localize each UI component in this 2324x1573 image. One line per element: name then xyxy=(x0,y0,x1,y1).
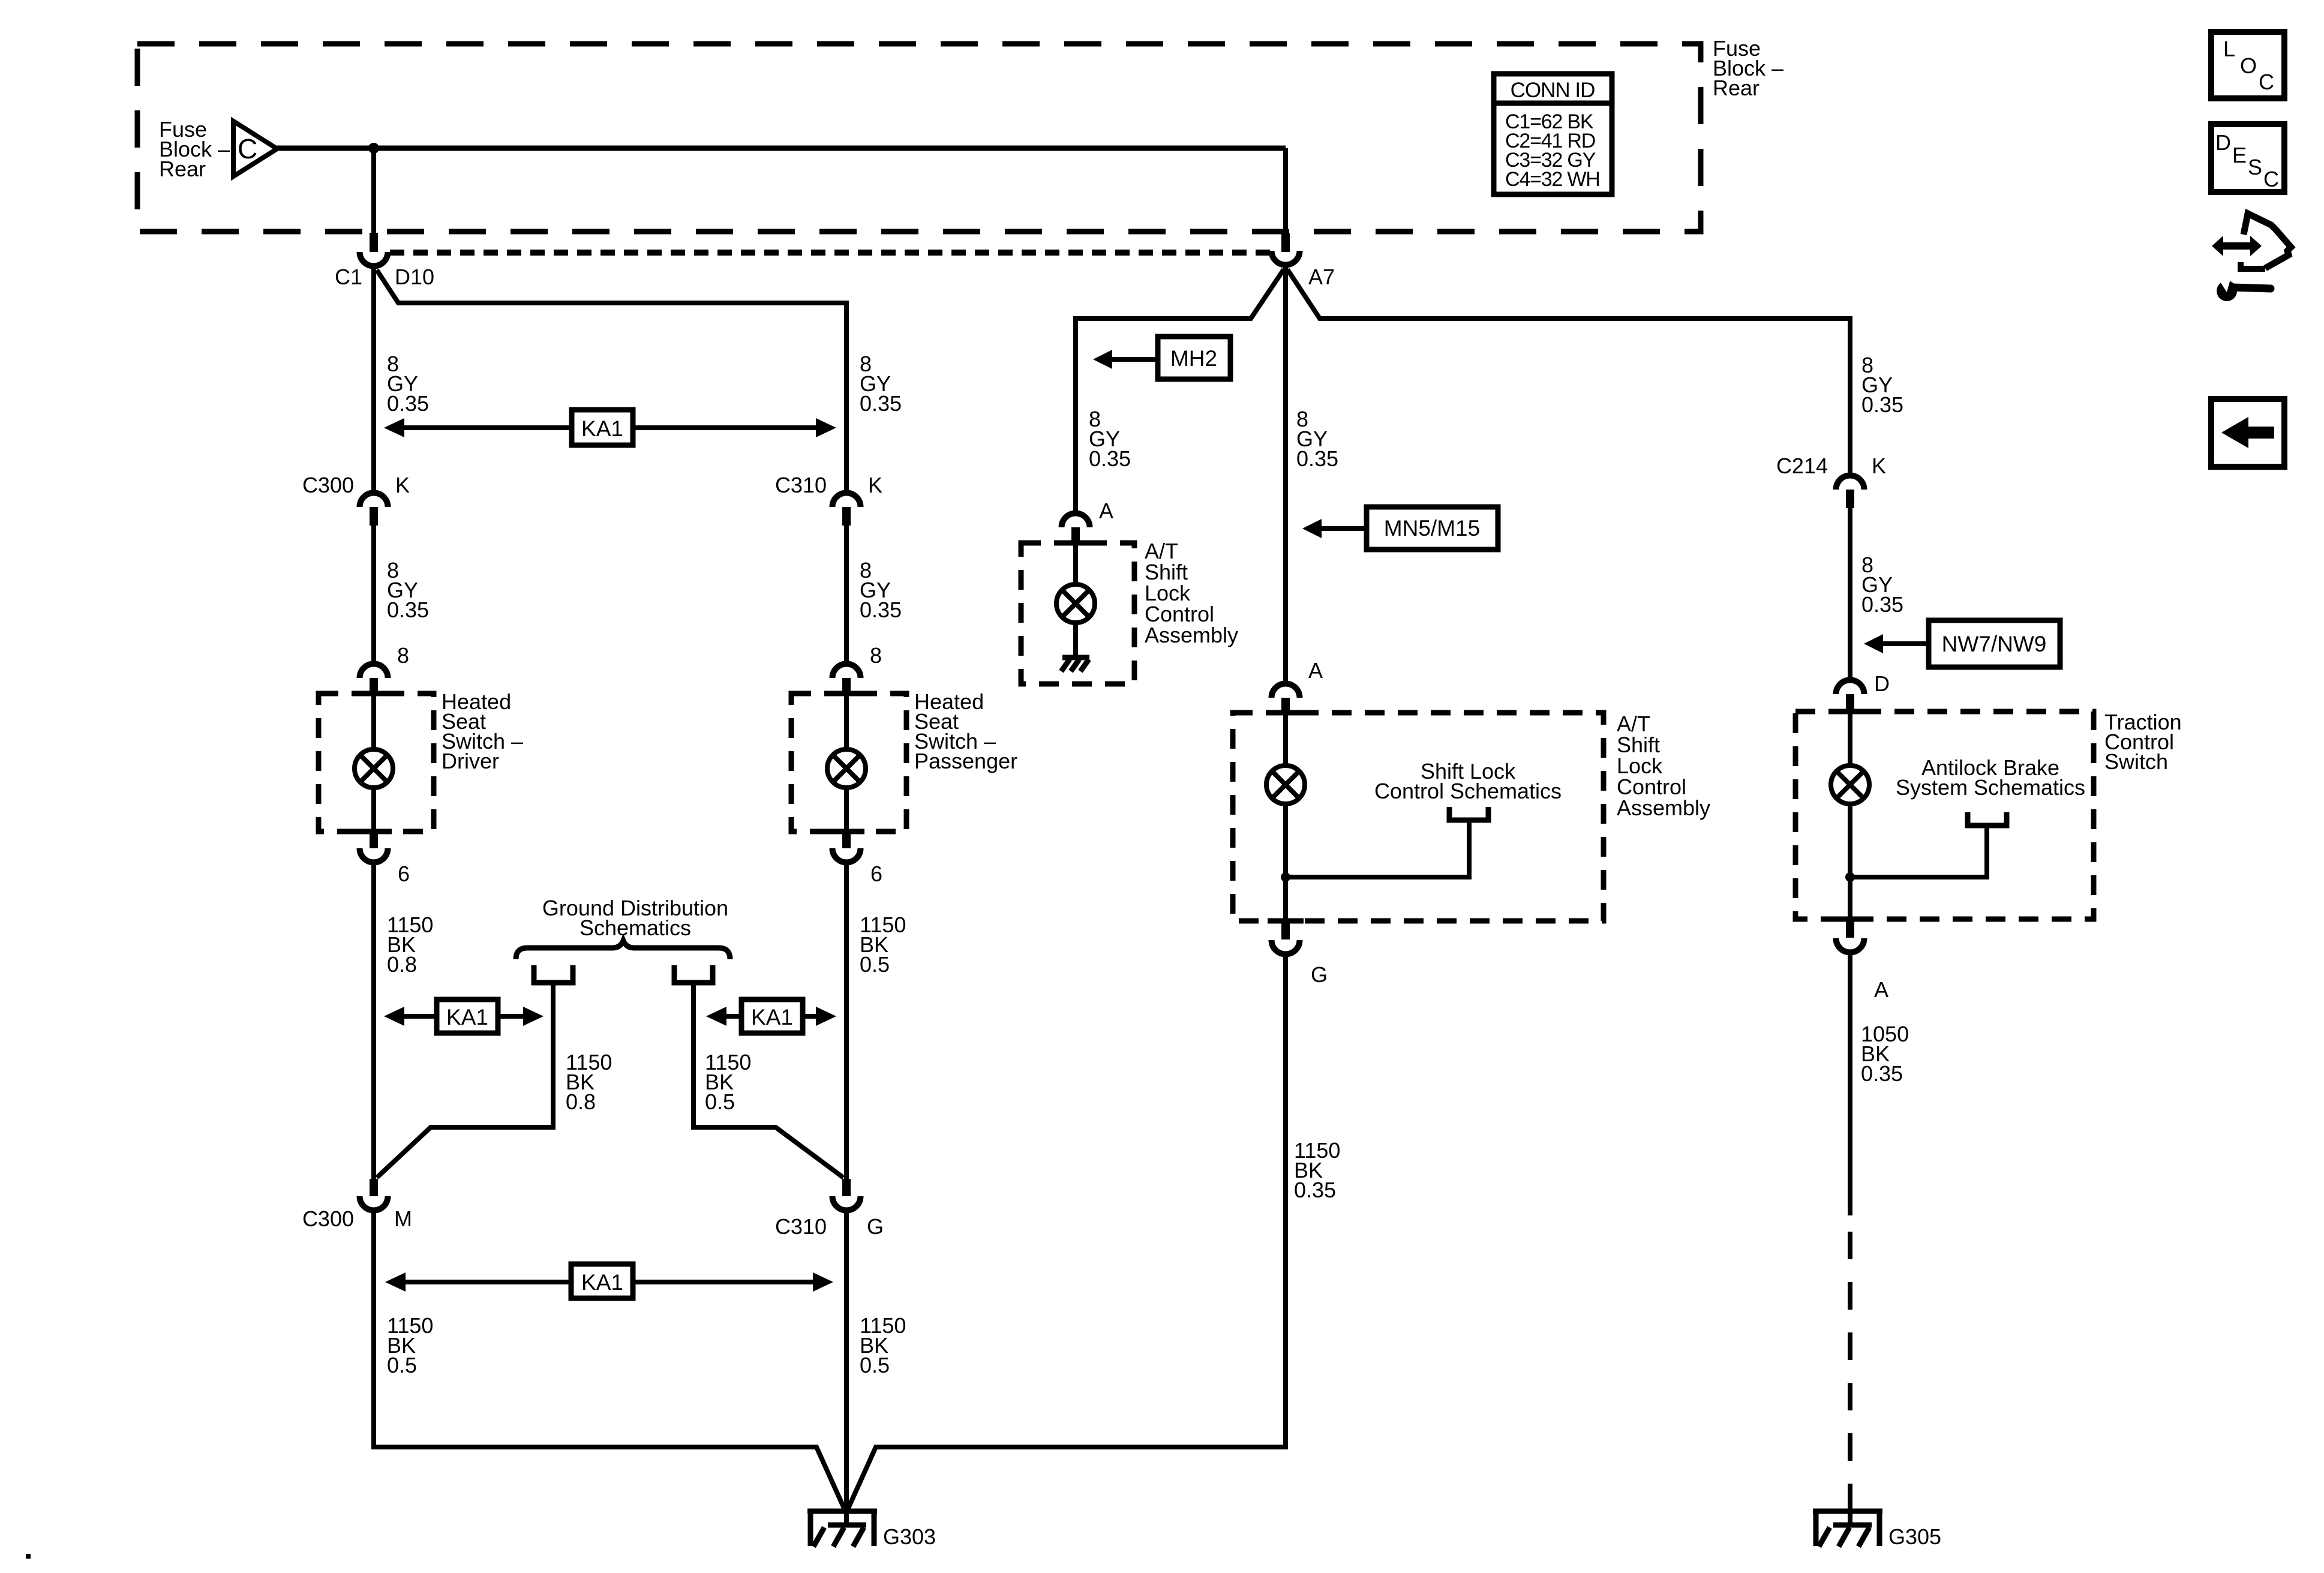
fuse block rear dashed outline xyxy=(137,44,1701,232)
wire: inside small assembly lower xyxy=(1073,621,1078,658)
fork: shift lock control schematics pointer xyxy=(1449,807,1488,820)
wire: junction to antilock fork xyxy=(1850,825,1987,877)
svg-text:0.8: 0.8 xyxy=(566,1089,596,1114)
svg-text:M: M xyxy=(394,1206,412,1231)
heated seat switch driver dashed box xyxy=(319,694,434,831)
label: A/T Shift Lock Control Assembly (small) xyxy=(1145,539,1238,647)
svg-text:A7: A7 xyxy=(1308,265,1335,289)
connector pin 6 (driver) xyxy=(360,831,410,886)
boundary tick driver bottom xyxy=(356,829,392,834)
svg-text:8: 8 xyxy=(397,643,409,668)
boundary tick traction top xyxy=(1832,709,1868,715)
svg-text:Passenger: Passenger xyxy=(914,749,1017,773)
svg-text:L: L xyxy=(2223,37,2235,61)
svg-text:O: O xyxy=(2240,53,2257,78)
heated seat switch passenger dashed box xyxy=(791,694,906,831)
svg-text:KA1: KA1 xyxy=(751,1005,793,1029)
svg-text:G305: G305 xyxy=(1888,1524,1941,1549)
boundary tick driver top xyxy=(356,691,392,697)
connector A (shift lock assembly small) xyxy=(1062,499,1114,544)
svg-text:MH2: MH2 xyxy=(1170,346,1217,371)
svg-text:K: K xyxy=(1872,454,1886,478)
wire label 1050 BK 0.35 xyxy=(1861,1022,1909,1086)
connector G (big shift lock assembly) xyxy=(1272,923,1328,987)
svg-text:Assembly: Assembly xyxy=(1145,623,1238,647)
wire: C1 down to C300 K xyxy=(371,266,376,491)
NW7/NW9 reference box and arrow xyxy=(1864,620,2060,667)
boundary tick traction bottom xyxy=(1832,917,1868,922)
ground G303 xyxy=(807,1509,936,1549)
label: Shift Lock Control Schematics xyxy=(1374,759,1562,803)
svg-text:S: S xyxy=(2248,155,2262,179)
wire label 1150 BK 0.5 (right tail) xyxy=(705,1050,751,1114)
svg-text:Rear: Rear xyxy=(1713,76,1759,100)
brace: ground distribution xyxy=(516,941,730,959)
svg-text:0.35: 0.35 xyxy=(860,598,902,622)
svg-text:0.5: 0.5 xyxy=(860,952,890,977)
wire label 8 GY 0.35 (MH2 branch) xyxy=(1089,407,1131,471)
lamp: driver heated seat indicator xyxy=(355,749,393,788)
fork: antilock brake schematics pointer xyxy=(1968,812,2007,825)
KA1 arrow mid left xyxy=(384,999,544,1033)
connector pin 8 (passenger switch) xyxy=(833,643,882,695)
svg-text:Driver: Driver xyxy=(442,749,499,773)
connector A (traction switch bottom) xyxy=(1836,921,1889,1002)
connector boundary dotted line C1/A7 xyxy=(390,250,1270,256)
svg-text:A: A xyxy=(1099,499,1113,523)
svg-text:D: D xyxy=(2215,130,2231,155)
svg-text:C214: C214 xyxy=(1776,454,1828,478)
connector C310 K xyxy=(775,473,882,526)
boundary tick passenger top xyxy=(828,691,864,697)
svg-text:0.35: 0.35 xyxy=(1861,592,1903,617)
svg-text:0.35: 0.35 xyxy=(1294,1178,1336,1202)
icon: DESC button xyxy=(2211,124,2284,192)
wire label 1150 BK 0.5 (passenger bottom) xyxy=(860,1313,906,1377)
wire: A7 right diagonal to traction branch xyxy=(1287,269,1850,474)
wire: right fork tail to C310 G xyxy=(693,983,843,1178)
label: Heated Seat Switch - Driver xyxy=(442,689,523,773)
svg-text:G303: G303 xyxy=(883,1524,936,1549)
lamp: passenger heated seat indicator xyxy=(827,749,866,788)
wire: inside small assembly upper xyxy=(1073,543,1078,586)
wire label 8 GY 0.35 (traction upper) xyxy=(1861,353,1903,417)
svg-text:D: D xyxy=(1874,671,1890,696)
wire: inside passenger switch upper xyxy=(844,694,849,751)
svg-text:K: K xyxy=(395,473,410,497)
svg-text:Control Schematics: Control Schematics xyxy=(1374,779,1562,803)
svg-text:C: C xyxy=(2259,70,2274,94)
svg-text:NW7/NW9: NW7/NW9 xyxy=(1942,632,2047,656)
svg-text:G: G xyxy=(867,1214,884,1239)
wire: C310 G to ground G303 xyxy=(844,1211,849,1526)
icon: back arrow button xyxy=(2211,399,2284,467)
svg-text:A: A xyxy=(1874,977,1888,1002)
stray mark bottom left xyxy=(26,1554,31,1559)
svg-text:8: 8 xyxy=(870,643,882,668)
CONN ID table xyxy=(1494,74,1612,194)
node: junction inside traction box xyxy=(1845,872,1855,882)
connector C300 M xyxy=(302,1179,412,1231)
svg-text:C310: C310 xyxy=(775,1214,827,1239)
wire: left fork tail to C300 M xyxy=(377,983,553,1178)
boundary tick passenger bottom xyxy=(828,829,864,834)
svg-text:CONN ID: CONN ID xyxy=(1511,79,1595,102)
svg-text:D10: D10 xyxy=(395,265,434,289)
connector A7 pin xyxy=(1272,233,1335,289)
svg-text:Assembly: Assembly xyxy=(1617,795,1710,820)
label: Heated Seat Switch - Passenger xyxy=(914,689,1017,773)
svg-text:C300: C300 xyxy=(302,1206,354,1231)
node: junction at C1 drop xyxy=(368,143,379,154)
svg-text:0.35: 0.35 xyxy=(387,391,429,416)
svg-text:0.5: 0.5 xyxy=(860,1353,890,1377)
wire label 1150 BK 0.8 (driver) xyxy=(387,912,433,977)
fuse output triangle C xyxy=(233,121,277,176)
MH2 reference box and arrow xyxy=(1093,337,1230,379)
fork: ground distribution left xyxy=(534,965,573,983)
wire label 1150 BK 0.5 (passenger) xyxy=(860,912,906,977)
svg-text:0.5: 0.5 xyxy=(705,1089,735,1114)
label: A/T Shift Lock Control Assembly (big box right) xyxy=(1617,712,1710,820)
boundary tick small box top xyxy=(1058,541,1094,546)
wire: junction to schematic fork xyxy=(1286,820,1469,877)
wire label 1150 BK 0.5 (driver bottom) xyxy=(387,1313,433,1377)
svg-text:0.8: 0.8 xyxy=(387,952,417,977)
svg-text:0.35: 0.35 xyxy=(1089,446,1131,471)
svg-text:Schematics: Schematics xyxy=(580,915,691,940)
fork: ground distribution right xyxy=(674,965,713,983)
wire: inside big box lower xyxy=(1283,802,1288,921)
traction control switch dashed box xyxy=(1795,712,2094,919)
wire: C310 K to switch (passenger) xyxy=(844,526,849,662)
wire: traction A down (solid) xyxy=(1848,953,1852,1215)
icon: LOC button xyxy=(2211,32,2284,98)
connector C310 G xyxy=(775,1179,884,1239)
connector D (traction switch) xyxy=(1836,671,1890,711)
wire: D10 diagonal branch xyxy=(377,270,846,491)
wire: inside traction box lower xyxy=(1848,802,1852,919)
svg-text:C4=32 WH: C4=32 WH xyxy=(1505,168,1600,191)
svg-text:C: C xyxy=(2263,167,2279,191)
connector pin 6 (passenger) xyxy=(833,831,883,886)
A/T shift lock control assembly small dashed box xyxy=(1021,543,1134,684)
label: Traction Control Switch xyxy=(2104,710,2182,774)
connector C214 K xyxy=(1776,454,1886,508)
wire: inside traction box upper xyxy=(1848,712,1852,767)
MN5/M15 reference box and arrow xyxy=(1302,507,1498,550)
label: Antilock Brake System Schematics xyxy=(1896,755,2085,800)
svg-text:K: K xyxy=(868,473,882,497)
svg-text:6: 6 xyxy=(870,861,882,886)
wire: main feed from triangle C xyxy=(277,146,1286,151)
wire: drop to C1 xyxy=(371,148,376,234)
svg-text:C: C xyxy=(238,133,257,164)
svg-text:E: E xyxy=(2232,143,2247,167)
svg-text:0.5: 0.5 xyxy=(387,1353,417,1377)
svg-text:C1: C1 xyxy=(335,265,362,289)
svg-text:0.35: 0.35 xyxy=(1861,1061,1903,1086)
svg-text:6: 6 xyxy=(398,861,410,886)
svg-text:0.35: 0.35 xyxy=(1861,392,1903,417)
wire label 1150 BK 0.8 (left tail) xyxy=(566,1050,612,1114)
svg-text:Switch: Switch xyxy=(2104,749,2168,774)
svg-text:KA1: KA1 xyxy=(581,1270,623,1295)
connector A (big shift lock assembly) xyxy=(1272,658,1323,715)
node: junction inside big box xyxy=(1281,872,1290,882)
svg-text:A: A xyxy=(1308,658,1323,683)
svg-text:G: G xyxy=(1311,962,1328,987)
wire label 8 GY 0.35 (A7 branch) xyxy=(1296,407,1338,471)
KA1 arrow mid right xyxy=(706,999,836,1033)
wire: inside driver switch lower xyxy=(371,786,376,831)
lamp: shift lock indicator (small) xyxy=(1056,584,1095,623)
A/T shift lock control assembly big dashed box xyxy=(1233,713,1604,921)
svg-text:KA1: KA1 xyxy=(446,1005,488,1029)
svg-text:C310: C310 xyxy=(775,473,827,497)
wire: drop to A7 xyxy=(1283,148,1288,235)
connector C300 K xyxy=(302,473,410,526)
wire: inside driver switch upper xyxy=(371,694,376,751)
KA1 arrow bottom xyxy=(385,1264,833,1298)
icon: component view with wrench xyxy=(2212,214,2291,301)
svg-text:MN5/M15: MN5/M15 xyxy=(1384,516,1480,541)
connector pin 8 (driver switch) xyxy=(360,643,410,695)
connector C1 pin D10 xyxy=(335,233,434,289)
label: Ground Distribution Schematics xyxy=(542,896,728,940)
boundary tick big box top xyxy=(1268,710,1304,716)
wire: driver switch to C300 M xyxy=(371,863,376,1179)
wire: C300 M to ground bus xyxy=(374,1211,844,1508)
ground G305 xyxy=(1813,1509,1941,1549)
wire: C300 K to switch (driver) xyxy=(371,526,376,662)
wire: inside big box upper xyxy=(1283,713,1288,767)
lamp: traction control indicator xyxy=(1831,766,1869,804)
svg-text:KA1: KA1 xyxy=(581,416,623,441)
wire label 8 GY 0.35 (traction mid) xyxy=(1861,553,1903,617)
svg-text:System Schematics: System Schematics xyxy=(1896,775,2085,800)
wire: A7 straight down xyxy=(1283,267,1288,682)
ground: inside small assembly xyxy=(1061,658,1089,671)
wire: big box G down to ground bus xyxy=(848,954,1286,1508)
svg-text:0.35: 0.35 xyxy=(860,391,902,416)
KA1 arrow row 1 xyxy=(384,410,836,445)
wire: passenger switch down to C310 G and ground xyxy=(844,863,849,1179)
wire: C214 down to traction switch xyxy=(1848,508,1852,679)
wire label 1150 BK 0.35 (shift lock ground) xyxy=(1294,1138,1340,1202)
wire: inside passenger switch lower xyxy=(844,786,849,831)
svg-text:Rear: Rear xyxy=(159,157,206,181)
svg-text:0.35: 0.35 xyxy=(1296,446,1338,471)
svg-text:C300: C300 xyxy=(302,473,354,497)
svg-text:0.35: 0.35 xyxy=(387,598,429,622)
boundary tick big box bottom xyxy=(1268,918,1304,924)
wire: traction A down (unconnected dashed) xyxy=(1848,1215,1852,1511)
lamp: shift lock indicator (big box) xyxy=(1266,766,1305,804)
wire: A7 left diagonal to MH2 branch xyxy=(1076,269,1284,512)
